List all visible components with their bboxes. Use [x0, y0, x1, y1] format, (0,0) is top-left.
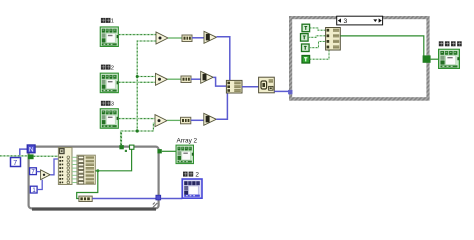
loop input tunnel: [28, 154, 34, 159]
boolean constant 1: [302, 24, 310, 32]
loop resize glyph: [153, 203, 158, 208]
label 结果显示: [439, 41, 462, 46]
wire converter to conversion row3: [191, 119, 204, 121]
wire search to case selector: [274, 90, 289, 92]
build array node: [226, 80, 242, 93]
svg-text:Array 2: Array 2: [177, 138, 198, 145]
wire constant2 to build array 2: [308, 36, 326, 38]
boolean constant 2: [301, 34, 309, 42]
case structure frame: [289, 18, 430, 101]
constant 7 outside loop: [11, 158, 21, 167]
wire constant1 to build array 2: [310, 28, 326, 30]
wire 模板2 to equal node: [119, 81, 156, 83]
subtract node: [41, 170, 51, 180]
array constant 模板2: [100, 73, 118, 92]
wire array in: [0, 155, 28, 157]
wire subtract to index array: [50, 159, 58, 175]
loop right tunnel green: [157, 149, 161, 153]
label 模板1: [101, 18, 114, 25]
wire conversion row2 to build array: [213, 77, 226, 86]
boolean constant 4 (true): [302, 56, 310, 64]
array constant 模板3: [100, 109, 118, 129]
wire tunnel to indicator: [431, 58, 438, 60]
conversion node row1: [204, 31, 217, 43]
array constant 模板1: [100, 27, 118, 46]
junction dot row2: [136, 75, 139, 78]
wire 模板3 to equal node: [119, 118, 155, 120]
svg-text:3: 3: [111, 102, 114, 108]
wire converter to conversion row2: [191, 78, 201, 80]
svg-text:2: 2: [195, 172, 199, 179]
wire tunnel to index array: [34, 155, 59, 157]
wire 7 to subtract: [36, 171, 40, 173]
loop top tunnel 1: [119, 145, 123, 149]
label 模板3: [101, 101, 114, 108]
for loop frame: [29, 147, 159, 210]
loop top tunnel 2: [130, 145, 134, 149]
wire branch stub row2: [137, 76, 155, 78]
svg-text:3: 3: [344, 18, 348, 25]
boolean array to number row1: [182, 35, 192, 42]
label 数组 2: [183, 172, 199, 179]
wire 模板1 to equal node: [119, 34, 156, 36]
numeric array indicator 数组 2: [182, 179, 202, 198]
wire converter to conversion row1: [192, 37, 204, 39]
label 模板2: [101, 65, 114, 72]
junction dot main: [136, 129, 139, 132]
wire constant4 to build array 2: [310, 50, 329, 59]
wire to Array 2: [162, 150, 176, 152]
boolean array indicator 结果显示: [439, 49, 460, 68]
wire compare branch vertical: [137, 41, 156, 131]
case selector terminal: [288, 90, 293, 94]
equal? node row3: [155, 115, 167, 127]
boolean array to number loop node: [79, 196, 92, 201]
boolean array to number row3: [181, 117, 191, 124]
wire constant3 to build array 2: [309, 41, 326, 47]
wire equal to converter row1: [168, 37, 182, 39]
wire build array 8 output: [95, 149, 131, 171]
wire equal to converter row3: [167, 119, 181, 121]
wire to bool-to-num node: [77, 171, 98, 199]
wire 7 to N: [20, 149, 27, 157]
boolean array to number row2: [181, 76, 191, 83]
constant 7 inside loop: [30, 168, 37, 176]
svg-text:N: N: [29, 147, 34, 154]
wire number out: [92, 198, 156, 200]
wire 1 to subtract: [37, 180, 42, 190]
loop count terminal N: [27, 145, 35, 154]
index array node: [58, 148, 72, 185]
green dot inside loop corner: [125, 150, 127, 152]
wire equal to converter row2: [168, 78, 182, 80]
case selector label: [337, 16, 383, 25]
svg-text:2: 2: [111, 65, 114, 71]
constant 1 inside loop: [30, 186, 37, 194]
boolean constant 3: [302, 44, 310, 52]
svg-text:7: 7: [13, 160, 17, 167]
search 1D array node: [259, 77, 275, 93]
build array 8 node: [77, 155, 95, 184]
wire conversion row1 to build array: [217, 37, 230, 81]
case output tunnel: [423, 55, 431, 62]
conversion node row2: [201, 71, 214, 83]
wire build array to search: [242, 86, 259, 88]
wire branch to loop tunnel: [121, 131, 138, 145]
conversion node row3: [204, 113, 217, 125]
loop right tunnel blue: [156, 195, 161, 200]
wire tunnel1 up: [121, 131, 123, 145]
equal? node row2: [156, 73, 168, 85]
svg-text:1: 1: [111, 19, 114, 25]
boolean array indicator Array 2: [176, 145, 193, 163]
wire branch to row3 equal: [137, 123, 155, 131]
build array node in case: [326, 28, 341, 51]
junction dot loop: [96, 169, 99, 172]
wire conversion row3 to build array: [216, 93, 227, 119]
wire to 数组 2: [161, 198, 183, 200]
equal? node row1: [156, 32, 168, 44]
wire stubs between index array and build array 8: [72, 157, 77, 182]
wire build array 2 to tunnel: [340, 36, 424, 56]
